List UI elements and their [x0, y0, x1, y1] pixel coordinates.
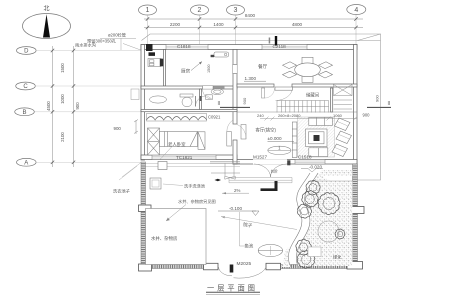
svg-text:II: II	[218, 101, 221, 107]
svg-text:D: D	[24, 49, 29, 55]
svg-text:A: A	[24, 160, 28, 166]
svg-text:3: 3	[234, 7, 238, 14]
svg-text:ø200砼管: ø200砼管	[108, 32, 126, 39]
svg-text:鱼池: 鱼池	[245, 243, 254, 249]
svg-text:厨房: 厨房	[181, 68, 191, 75]
svg-text:2200: 2200	[170, 22, 181, 27]
svg-text:餐厅: 餐厅	[258, 63, 268, 70]
svg-text:台阶: 台阶	[271, 169, 279, 174]
svg-text:水井、杂物房: 水井、杂物房	[151, 235, 178, 242]
svg-text:2%: 2%	[234, 188, 240, 193]
svg-text:260×8=2080: 260×8=2080	[278, 113, 301, 118]
svg-text:4: 4	[354, 7, 358, 14]
svg-text:2100: 2100	[60, 132, 65, 142]
svg-text:C: C	[23, 84, 28, 90]
svg-text:900: 900	[375, 95, 380, 102]
svg-text:1.300: 1.300	[245, 76, 257, 81]
svg-text:4800: 4800	[292, 22, 303, 27]
svg-text:1400: 1400	[213, 22, 224, 27]
svg-text:900: 900	[363, 113, 371, 118]
svg-text:TC1821: TC1821	[176, 155, 193, 160]
svg-text:C0921: C0921	[208, 115, 221, 120]
svg-text:M1527: M1527	[253, 155, 267, 160]
svg-text:1060: 1060	[333, 113, 343, 118]
svg-text:1000: 1000	[60, 94, 65, 104]
svg-text:雨水排水沟: 雨水排水沟	[75, 42, 96, 49]
svg-text:1500: 1500	[60, 63, 65, 73]
svg-text:水井、杂物房另见图: 水井、杂物房另见图	[178, 198, 216, 205]
svg-text:900: 900	[75, 102, 80, 110]
svg-text:储藏间: 储藏间	[306, 92, 319, 99]
svg-text:1500: 1500	[207, 65, 211, 73]
svg-text:绿化: 绿化	[333, 254, 342, 261]
svg-text:洗手洗涤池: 洗手洗涤池	[184, 183, 206, 190]
svg-text:4500: 4500	[46, 101, 51, 111]
svg-text:客厅(挑空): 客厅(挑空)	[256, 127, 277, 134]
svg-text:C1518: C1518	[298, 155, 312, 160]
svg-text:M2025: M2025	[237, 261, 252, 267]
svg-text:900: 900	[114, 126, 122, 131]
svg-text:老人卧室: 老人卧室	[168, 141, 186, 148]
svg-text:8400: 8400	[245, 13, 256, 18]
svg-text:洗衣池子: 洗衣池子	[113, 188, 130, 195]
svg-text:北: 北	[43, 5, 49, 13]
svg-text:±0.000: ±0.000	[268, 136, 282, 141]
svg-text:C1818: C1818	[177, 44, 191, 49]
svg-text:1: 1	[146, 7, 150, 14]
svg-text:240: 240	[257, 113, 264, 118]
svg-text:900: 900	[242, 97, 247, 104]
svg-text:2: 2	[198, 7, 202, 14]
svg-text:C2118: C2118	[273, 44, 287, 49]
svg-text:-0.100: -0.100	[229, 206, 242, 211]
svg-text:B: B	[22, 110, 26, 116]
svg-text:II: II	[388, 101, 391, 107]
svg-text:一层平面图: 一层平面图	[207, 284, 258, 293]
